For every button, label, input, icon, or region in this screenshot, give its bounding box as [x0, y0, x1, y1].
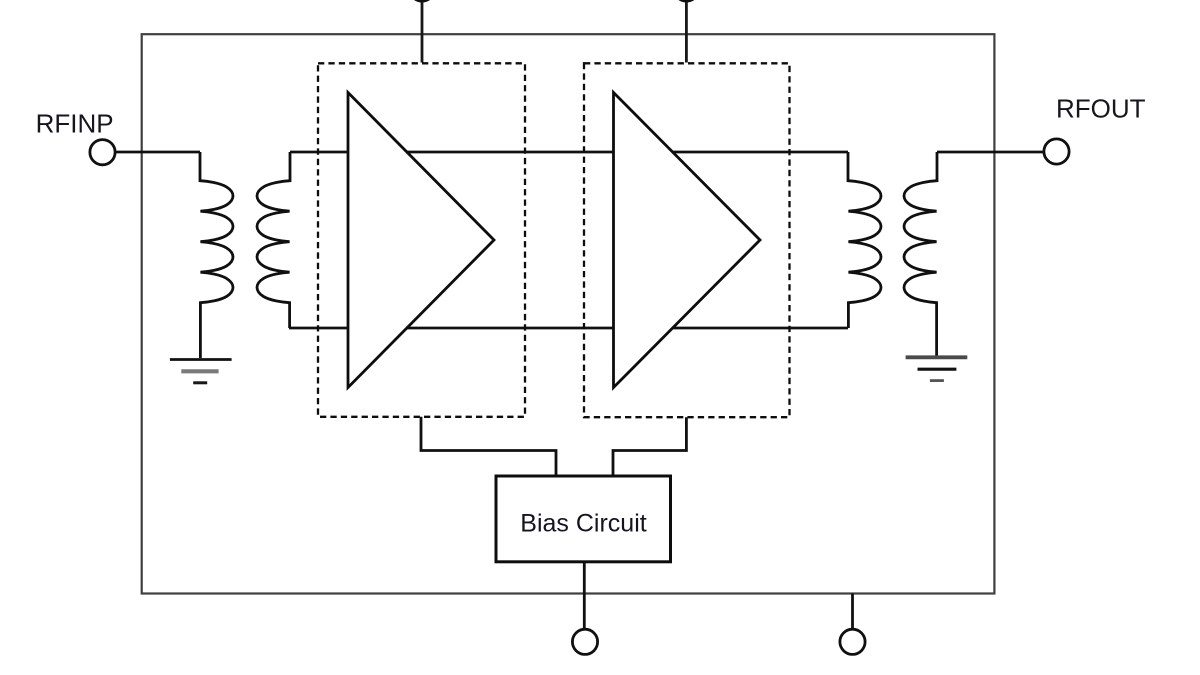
svg-text:RFOUT: RFOUT: [1056, 94, 1146, 124]
svg-text:RFINP: RFINP: [36, 109, 114, 139]
svg-text:Bias Circuit: Bias Circuit: [520, 510, 646, 538]
